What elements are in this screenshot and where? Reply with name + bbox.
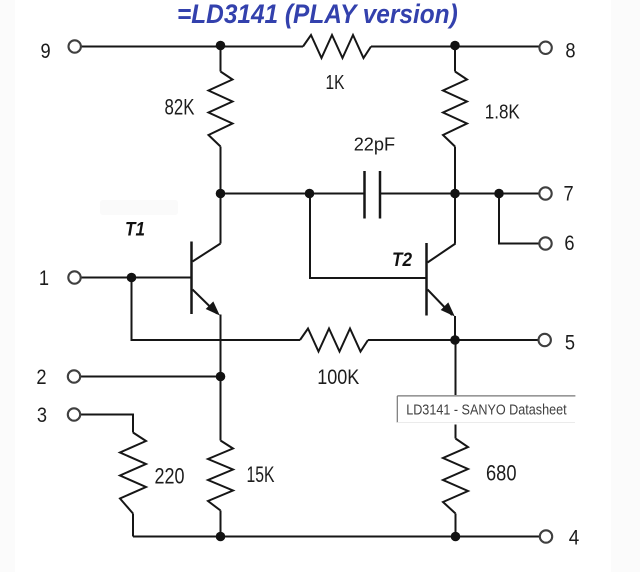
terminal 8 xyxy=(539,42,551,54)
svg-text:9: 9 xyxy=(41,40,51,63)
svg-text:1: 1 xyxy=(39,267,49,290)
wire: branch to pin6 xyxy=(499,194,539,244)
svg-text:T1: T1 xyxy=(125,217,145,239)
resistor R 220 (vertical zigzag) xyxy=(120,433,146,514)
resistor R 680 (vertical zigzag) xyxy=(443,439,468,514)
wire: pin2 row xyxy=(81,376,221,378)
node: cap/T2 base xyxy=(305,189,315,199)
svg-text:3: 3 xyxy=(37,404,47,427)
capacitor C 22pF plates xyxy=(363,171,366,219)
terminal 4 xyxy=(540,530,552,542)
wire: T2 base drop xyxy=(310,194,427,279)
terminal 9 xyxy=(69,40,81,52)
svg-text:LD3141 - SANYO Datasheet: LD3141 - SANYO Datasheet xyxy=(406,400,567,417)
wire: pin1 to T1 base xyxy=(81,277,191,279)
wire: 100K row right to pin5 xyxy=(368,339,539,341)
terminal 2 xyxy=(68,370,80,382)
terminal 6 xyxy=(539,237,551,249)
pin number labels xyxy=(36,39,579,549)
terminal circles xyxy=(68,40,552,542)
T2 emitter arrowhead xyxy=(441,302,455,316)
wire: 680 segment below tooltip xyxy=(455,425,457,439)
node: pin7/pin6 branch xyxy=(494,189,504,199)
node: T2 emitter/pin5 xyxy=(450,335,460,345)
terminal 7 xyxy=(539,187,551,199)
terminal 1 xyxy=(68,271,80,283)
T2 collector xyxy=(428,244,456,263)
svg-text:680: 680 xyxy=(486,462,516,486)
resistor R 1K (horizontal zigzag) xyxy=(303,35,371,58)
svg-text:100K: 100K xyxy=(317,366,359,390)
wire: mid row left (to cap) xyxy=(221,193,365,195)
svg-text:22pF: 22pF xyxy=(354,133,395,154)
svg-text:15K: 15K xyxy=(247,464,275,488)
resistor R 1.8K (vertical) xyxy=(454,47,456,72)
wire: pin9 row right of 1K xyxy=(371,46,539,48)
svg-text:6: 6 xyxy=(564,232,574,255)
wire: mid row right (cap to pin7) xyxy=(380,193,539,195)
wire: junction1 drop + 100K row left xyxy=(132,278,301,341)
svg-text:82K: 82K xyxy=(165,95,195,120)
svg-text:5: 5 xyxy=(565,331,575,354)
T2 emitter xyxy=(428,290,453,316)
T1 collector xyxy=(193,244,221,262)
svg-text:4: 4 xyxy=(569,527,580,550)
svg-text:1K: 1K xyxy=(326,71,345,94)
node: pin8/1.8K xyxy=(450,41,460,51)
wire: 680 top segment (above tooltip) xyxy=(455,340,457,395)
svg-text:2: 2 xyxy=(36,366,46,389)
wire: pin9 row left xyxy=(81,46,303,48)
resistor R 15K (vertical zigzag) xyxy=(208,441,233,511)
right margin strip xyxy=(611,0,640,572)
transistor Q T1 base bar xyxy=(190,242,193,315)
svg-text:T2: T2 xyxy=(392,248,412,270)
svg-text:1.8K: 1.8K xyxy=(485,100,521,123)
wire: pin3 row + drop xyxy=(81,415,133,433)
component value labels xyxy=(155,71,521,489)
transistor Q T2 base bar xyxy=(425,243,428,316)
resistor R 82K (vertical) xyxy=(220,47,222,72)
node: pin1 junction xyxy=(127,273,137,283)
resistor R 100K (horizontal zigzag) xyxy=(300,329,368,352)
svg-text:220: 220 xyxy=(155,465,185,489)
wire: bottom row to pin4 xyxy=(133,536,540,538)
terminal 5 xyxy=(539,334,551,346)
svg-text:=LD3141 (PLAY version): =LD3141 (PLAY version) xyxy=(177,0,458,29)
tooltip box LD3141 - SANYO Datasheet xyxy=(397,395,575,397)
faint erased-tooltip smudge xyxy=(100,200,178,215)
T1 emitter arrowhead xyxy=(206,301,220,315)
node: pin2/15K xyxy=(216,372,226,382)
svg-text:8: 8 xyxy=(565,39,575,62)
node: pin9/82K xyxy=(216,41,226,51)
left margin strip xyxy=(0,0,15,572)
svg-text:7: 7 xyxy=(564,182,574,205)
node: 1.8K/T2 collector xyxy=(450,189,460,199)
node: 680/bottom xyxy=(451,532,461,542)
node: 15K/bottom xyxy=(216,532,226,542)
terminal 3 xyxy=(68,408,80,420)
T1 emitter xyxy=(193,290,218,314)
node: 82K/T1 collector xyxy=(216,189,226,199)
